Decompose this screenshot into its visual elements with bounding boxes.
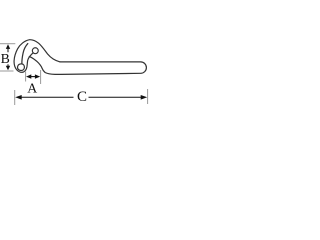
svg-text:B: B (1, 51, 10, 66)
svg-text:A: A (27, 80, 37, 95)
svg-text:C: C (77, 89, 87, 105)
